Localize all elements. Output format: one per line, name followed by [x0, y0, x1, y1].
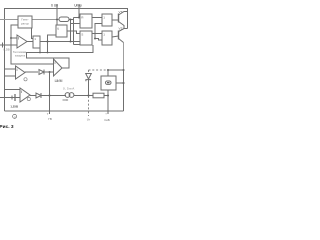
- svg-text:R: R: [81, 16, 84, 20]
- svg-text:7: 7: [47, 112, 49, 116]
- svg-text:ШИМ: ШИМ: [55, 79, 63, 83]
- svg-text:1: 1: [103, 33, 105, 37]
- svg-text:Рис. 3: Рис. 3: [0, 124, 14, 130]
- svg-text:ГВ: ГВ: [48, 117, 52, 121]
- svg-text:0,5В: 0,5В: [3, 48, 9, 52]
- svg-text:VT: VT: [119, 10, 123, 14]
- svg-text:1: 1: [103, 16, 105, 20]
- svg-text:ратор: ратор: [21, 22, 29, 26]
- svg-text:Uт: Uт: [87, 118, 91, 122]
- svg-text:VT: VT: [119, 26, 123, 30]
- svg-text:т: т: [105, 112, 107, 116]
- svg-text:Гене-: Гене-: [21, 18, 28, 22]
- svg-text:СиБ: СиБ: [104, 118, 110, 122]
- svg-text:1: 1: [34, 37, 36, 41]
- svg-text:&: &: [57, 27, 60, 31]
- svg-text:S: S: [81, 33, 83, 37]
- svg-text:1,25В: 1,25В: [10, 105, 18, 109]
- svg-text:Uпор: Uпор: [74, 3, 82, 7]
- svg-text:6 Uп: 6 Uп: [51, 3, 58, 7]
- svg-text:0,5мА: 0,5мА: [63, 87, 75, 91]
- svg-text:защита: защита: [15, 54, 26, 58]
